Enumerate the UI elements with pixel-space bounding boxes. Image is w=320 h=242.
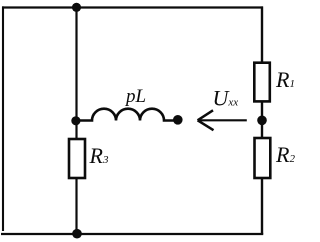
arrow Uxx shaft: [198, 119, 247, 121]
node middle junction: [71, 116, 80, 125]
wire middle upper: [75, 8, 77, 122]
wire right lower: [261, 178, 263, 235]
wire R3 to bottom: [75, 178, 77, 234]
arrow Uxx upper barb: [198, 110, 213, 120]
node inductor terminal: [173, 115, 183, 125]
wire top: [2, 6, 263, 8]
node bottom junction: [72, 229, 82, 239]
wire right upper: [261, 6, 263, 64]
wire terminal to R2: [261, 120, 263, 139]
resistor R3: [69, 139, 85, 178]
svg-text:pL: pL: [124, 86, 146, 107]
wire right R1 to terminal: [261, 101, 263, 121]
svg-text:R2: R2: [275, 142, 295, 167]
node right terminal: [257, 116, 267, 126]
svg-text:Uxx: Uxx: [213, 86, 239, 111]
wire left: [2, 6, 4, 231]
inductor pL: [79, 109, 174, 121]
svg-text:R3: R3: [89, 143, 109, 168]
node top junction: [72, 3, 81, 12]
svg-text:R1: R1: [275, 67, 295, 92]
resistor R2: [255, 138, 271, 178]
arrow Uxx lower barb: [198, 120, 214, 130]
resistor R1: [254, 63, 269, 102]
wire bottom: [1, 233, 263, 235]
wire junction to R3: [75, 121, 77, 140]
